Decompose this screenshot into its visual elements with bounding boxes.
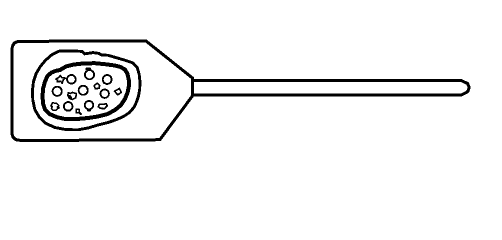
pan body outer outline bbox=[12, 41, 193, 140]
food circle D bbox=[53, 87, 62, 96]
food bit pentagon S4 bbox=[51, 103, 59, 111]
food bit ink nub S6b bbox=[79, 112, 82, 115]
food blob outline bbox=[43, 63, 129, 119]
food bit pentagon S2 bbox=[94, 83, 100, 89]
pan rim (middle outline) bbox=[32, 51, 140, 130]
food circle A bbox=[67, 75, 76, 84]
food bit square S6 bbox=[76, 109, 79, 113]
food circle C bbox=[103, 75, 112, 84]
food bit hexagon S7 bbox=[98, 104, 107, 109]
food circle B bbox=[85, 70, 94, 79]
pan handle bbox=[194, 80, 469, 95]
food bit ink nub S4b bbox=[58, 106, 59, 109]
ink blob on circle B top bbox=[87, 68, 90, 71]
ink dot on circle C bbox=[103, 82, 106, 85]
food bit ink corner S5b bbox=[70, 96, 71, 98]
ink nub under circle H bbox=[88, 109, 90, 111]
food circle G bbox=[64, 102, 73, 111]
food bit square S5 bbox=[68, 92, 77, 99]
food circle E bbox=[79, 86, 88, 95]
food circle H bbox=[85, 101, 94, 110]
food circle F bbox=[100, 89, 109, 98]
ink tick under circle G bbox=[67, 110, 70, 112]
food bit star S1 bbox=[56, 76, 65, 84]
food bit kite S3 bbox=[115, 89, 122, 95]
